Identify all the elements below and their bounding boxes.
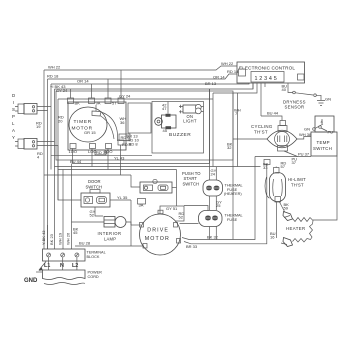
timer cam follower: [92, 105, 118, 141]
svg-text:ELECTRONIC CONTROL: ELECTRONIC CONTROL: [239, 66, 295, 71]
svg-text:GN: GN: [325, 97, 331, 102]
wire RD 20 label: [58, 115, 64, 124]
svg-text:OR 14: OR 14: [213, 75, 225, 80]
terminal block TB1: [41, 164, 106, 262]
svg-text:INTERIOR: INTERIOR: [98, 231, 122, 236]
svg-text:57: 57: [281, 164, 286, 169]
svg-text:45: 45: [73, 230, 78, 235]
svg-text:FUSE: FUSE: [227, 218, 238, 222]
heater terminal lug 2: [281, 238, 293, 247]
svg-text:59: 59: [284, 206, 289, 211]
svg-text:9A: 9A: [96, 101, 101, 106]
wire WH 22: [44, 61, 237, 249]
svg-text:PU: PU: [328, 130, 334, 135]
svg-text:CYCLING: CYCLING: [251, 124, 273, 129]
svg-text:L2: L2: [72, 263, 78, 269]
svg-text:52: 52: [90, 213, 95, 218]
svg-text:5T: 5T: [112, 101, 117, 106]
svg-text:20: 20: [58, 119, 63, 124]
svg-text:LAMP: LAMP: [104, 236, 116, 241]
dryness sensor S5: [282, 83, 332, 109]
timer terminals bottom: [69, 140, 125, 154]
svg-text:SWITCH: SWITCH: [183, 181, 200, 186]
svg-text:DOOR: DOOR: [88, 179, 101, 184]
svg-text:GY 51: GY 51: [166, 206, 178, 211]
svg-text:12345: 12345: [255, 76, 279, 82]
svg-text:16: 16: [270, 235, 275, 240]
wire BK 43: [50, 81, 253, 225]
svg-text:I: I: [13, 100, 14, 105]
svg-text:TEMP: TEMP: [317, 140, 330, 145]
svg-text:RD 35: RD 35: [96, 150, 108, 155]
timer wire labels: [51, 130, 152, 161]
svg-text:BU 44: BU 44: [267, 111, 279, 116]
svg-text:DRIVE: DRIVE: [147, 228, 169, 234]
svg-text:WH 22: WH 22: [221, 61, 234, 66]
mid bus wire BU 44: [70, 149, 210, 165]
svg-text:BK 23: BK 23: [49, 233, 54, 245]
svg-text:BU 28: BU 28: [79, 241, 91, 246]
svg-text:25: 25: [216, 203, 221, 208]
svg-text:BK: BK: [75, 101, 81, 106]
svg-text:40: 40: [282, 87, 287, 92]
svg-text:TH'ST: TH'ST: [291, 182, 304, 187]
ground wire and GND: [24, 262, 46, 285]
svg-text:TH'ST: TH'ST: [254, 129, 268, 134]
svg-text:YL 35: YL 35: [117, 195, 128, 200]
svg-text:GR 15: GR 15: [84, 130, 96, 135]
svg-text:WH 22: WH 22: [48, 65, 61, 70]
svg-text:HI-LIMIT: HI-LIMIT: [288, 177, 306, 182]
wire WH 38: [297, 132, 312, 139]
wire hi-limit feed: [234, 93, 276, 168]
svg-text:19: 19: [36, 124, 41, 129]
svg-text:RD 18: RD 18: [47, 74, 59, 79]
svg-text:52: 52: [179, 215, 184, 220]
wire OR 14: [51, 75, 249, 170]
svg-text:GND: GND: [24, 278, 38, 284]
svg-text:GY 24: GY 24: [56, 88, 68, 93]
svg-text:BUZZER: BUZZER: [169, 132, 191, 138]
thermal fuse F2: [184, 200, 243, 227]
hi-limit thermostat S6: [263, 161, 306, 211]
heater R1: [270, 218, 313, 243]
wires EC to cycling area: [213, 83, 282, 121]
svg-text:BK 32: BK 32: [207, 234, 219, 239]
timer terminals top: [68, 98, 125, 106]
svg-text:YL 43: YL 43: [114, 156, 125, 161]
svg-text:LIGHT: LIGHT: [183, 118, 197, 123]
svg-text:RD 6: RD 6: [121, 135, 131, 140]
svg-text:Y-BK 43: Y-BK 43: [41, 230, 46, 245]
display connector P2: [15, 121, 58, 170]
sub box around buzzer and on light: [152, 102, 204, 154]
svg-text:36: 36: [120, 120, 125, 125]
svg-text:GN: GN: [304, 127, 310, 132]
svg-text:A: A: [12, 128, 15, 133]
svg-text:SWITCH: SWITCH: [313, 146, 332, 151]
svg-text:L1: L1: [44, 263, 50, 269]
console enclosure: [56, 91, 233, 160]
svg-text:33: 33: [263, 165, 268, 170]
cycling thermostat S3: [251, 121, 298, 166]
ground symbol at dryness sensor: [317, 101, 325, 106]
svg-text:WH 19: WH 19: [58, 232, 63, 245]
svg-text:RD A: RD A: [122, 142, 132, 147]
svg-text:47: 47: [162, 106, 167, 111]
svg-text:BU 44: BU 44: [70, 159, 82, 164]
svg-text:RD 18: RD 18: [227, 69, 239, 74]
wire GY 24: [56, 88, 213, 200]
drive motor switch box: [160, 188, 184, 222]
electronic control U1: [237, 62, 305, 83]
svg-text:S: S: [12, 107, 15, 112]
push to start switch S2: [140, 171, 201, 193]
drive motor M1: [131, 210, 199, 255]
svg-text:BR 13: BR 13: [205, 81, 217, 86]
display label: [12, 93, 15, 140]
svg-text:TERMINAL: TERMINAL: [87, 251, 106, 255]
wire BU 28: [75, 222, 144, 246]
wire RD 18: [47, 69, 239, 249]
svg-text:BR 33: BR 33: [186, 244, 198, 249]
svg-text:32: 32: [227, 145, 232, 150]
svg-text:POWER: POWER: [88, 271, 103, 275]
svg-text:BLOCK: BLOCK: [87, 255, 100, 259]
wires thermal fuse column: [210, 89, 217, 240]
svg-text:N: N: [60, 263, 64, 269]
svg-text:HEATER: HEATER: [286, 226, 306, 231]
power cord W1: [43, 258, 103, 285]
svg-text:3A: 3A: [139, 203, 144, 208]
svg-text:37: 37: [292, 160, 297, 165]
heater terminal lug 1: [280, 202, 293, 221]
thermal fuse heater F1: [203, 180, 243, 196]
timer top feed wires: [71, 70, 122, 98]
svg-text:CORD: CORD: [88, 275, 99, 279]
svg-text:45: 45: [163, 128, 168, 133]
wire temp switch to heater: [313, 156, 337, 220]
svg-text:SENSOR: SENSOR: [285, 104, 305, 109]
svg-text:WH 38: WH 38: [299, 132, 312, 137]
timer assembly box: [68, 102, 151, 150]
wire BR 33 motor to cycling: [184, 165, 267, 250]
svg-text:SWITCH: SWITCH: [86, 184, 103, 189]
on light DS1: [179, 104, 204, 123]
svg-text:24: 24: [211, 172, 216, 177]
svg-text:D: D: [12, 93, 15, 98]
wire BU 16 to heater lug 2: [276, 202, 278, 238]
svg-text:TIMER: TIMER: [74, 119, 92, 125]
svg-text:WH 26: WH 26: [66, 232, 71, 245]
timer motor M2: [69, 107, 107, 142]
display connector P1: [15, 104, 51, 115]
svg-text:PU 37: PU 37: [298, 152, 310, 157]
wire PU 37: [255, 152, 311, 157]
svg-text:MOTOR: MOTOR: [145, 236, 170, 242]
wire BK 32 motor to PU37 column: [182, 139, 267, 240]
interior lamp DS2: [72, 207, 127, 241]
mid bus wires: [44, 89, 261, 240]
temp switch S4: [304, 116, 337, 156]
door switch S1: [58, 170, 146, 208]
svg-text:Y: Y: [12, 135, 15, 140]
svg-text:P: P: [12, 114, 15, 119]
terminal labels L1 N L2: [44, 263, 78, 269]
buzzer BZ1: [155, 102, 192, 139]
svg-text:OR 14: OR 14: [77, 79, 89, 84]
